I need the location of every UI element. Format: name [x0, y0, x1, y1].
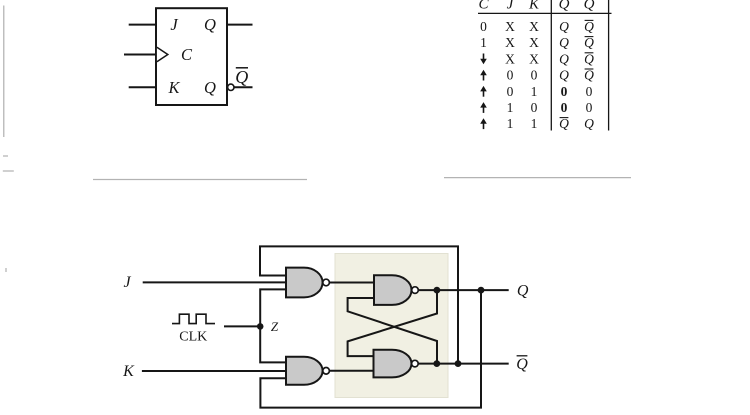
svg-text:0: 0 [561, 100, 568, 115]
svg-text:Q: Q [517, 283, 529, 300]
svg-text:Q: Q [559, 51, 569, 66]
svg-text:0: 0 [531, 68, 538, 83]
svg-text:J: J [170, 15, 178, 34]
svg-text:Q: Q [235, 67, 248, 87]
svg-text:0: 0 [507, 68, 514, 83]
wire cross-coupling Q-bar to G3 input [348, 298, 437, 364]
table header rule [478, 12, 612, 14]
svg-text:Q: Q [204, 15, 216, 34]
svg-text:C: C [181, 45, 193, 64]
svg-text:C: C [478, 0, 489, 12]
table column rule left [550, 0, 552, 131]
svg-text:0: 0 [480, 19, 487, 34]
svg-text:Q: Q [204, 78, 216, 97]
svg-text:J: J [123, 274, 131, 291]
svg-text:1: 1 [531, 116, 538, 131]
svg-text:Q: Q [584, 51, 594, 66]
wire K input [129, 86, 156, 88]
svg-text:1: 1 [507, 100, 514, 115]
separator rule right [444, 177, 631, 179]
wire G1 output to G3 [329, 282, 374, 284]
wire Q-bar output [234, 86, 252, 88]
svg-text:J: J [507, 0, 515, 12]
table column rule right [608, 0, 610, 131]
svg-text:Q: Q [559, 35, 569, 50]
wire Q feedback bottom rail [260, 290, 481, 408]
svg-text:Q: Q [584, 0, 595, 12]
separator rule left [93, 179, 307, 181]
junction dot node Q at feedback tap [478, 287, 485, 294]
svg-text:Q: Q [559, 19, 569, 34]
svg-text:CLK: CLK [179, 330, 207, 345]
svg-text:X: X [505, 19, 515, 34]
svg-text:Q: Q [516, 356, 528, 373]
flip-flop body rectangle [156, 8, 227, 105]
page margin tick marks [3, 6, 14, 273]
svg-text:0: 0 [586, 100, 593, 115]
svg-text:0: 0 [586, 84, 593, 99]
wire G4 output to node Q-bar [418, 363, 437, 365]
svg-text:Q: Q [584, 19, 594, 34]
bubble G1 [323, 279, 330, 286]
wire K input [142, 370, 286, 372]
junction dot node Q-bar at feedback tap [455, 360, 462, 367]
wire Q-bar feedback top rail [260, 246, 458, 363]
svg-text:0: 0 [531, 100, 538, 115]
shaded latch region [335, 254, 448, 398]
node Z junction dot [257, 323, 264, 330]
svg-text:K: K [122, 363, 135, 380]
svg-text:X: X [529, 51, 539, 66]
nand gate G4 (latch bottom) [374, 350, 412, 378]
svg-text:1: 1 [480, 35, 487, 50]
clock edge triangle [157, 47, 168, 61]
svg-text:Q: Q [584, 35, 594, 50]
wire cross-coupling Q to G4 input [348, 290, 437, 356]
wire Q-bar output line [437, 363, 509, 365]
row 6: up-arrow 1 0 0 0 [480, 100, 592, 115]
svg-text:1: 1 [507, 116, 514, 131]
wire Q output [227, 24, 253, 26]
svg-text:K: K [528, 0, 540, 12]
junction dot node Q at gate output [434, 287, 441, 294]
row 7: up-arrow 1 1 Qbar Q [480, 116, 594, 131]
svg-text:0: 0 [561, 84, 568, 99]
svg-text:Q: Q [559, 68, 569, 83]
bubble on Q-bar output [228, 84, 234, 90]
svg-text:K: K [167, 78, 180, 97]
CLK pulse waveform [172, 314, 215, 323]
row 3: down-arrow X X Q Qbar [480, 51, 594, 66]
svg-text:0: 0 [507, 84, 514, 99]
svg-text:X: X [529, 35, 539, 50]
row 1: 0 X X Q Qbar [480, 19, 594, 34]
junction dot node Q-bar at gate output [433, 360, 440, 367]
svg-text:Q: Q [584, 116, 594, 131]
svg-text:Z: Z [271, 319, 279, 334]
svg-text:Q: Q [559, 116, 569, 131]
row 2: 1 X X Q Qbar [480, 35, 594, 50]
svg-text:X: X [529, 19, 539, 34]
bubble G2 [323, 368, 330, 375]
svg-text:1: 1 [531, 84, 538, 99]
wire J input [129, 24, 156, 26]
svg-text:Q: Q [584, 68, 594, 83]
wire C clock input [124, 54, 156, 56]
wire G2 output to G4 [329, 370, 373, 372]
wire J input [143, 281, 286, 283]
row 5: up-arrow 0 1 0 0 [480, 84, 592, 99]
wire clock vertical to both input gates [260, 289, 286, 362]
row 4: up-arrow 0 0 Q Qbar [480, 68, 594, 83]
svg-text:X: X [505, 35, 515, 50]
nand gate G3 (latch top) [374, 275, 412, 305]
wire Q output line [437, 289, 509, 291]
wire G3 output to node Q [418, 289, 437, 291]
svg-text:Q: Q [559, 0, 570, 12]
nand gate G2 (K input gate) [286, 357, 323, 385]
nand gate G1 (J input gate) [286, 268, 323, 298]
wire CLK to node Z [224, 325, 260, 327]
svg-text:X: X [505, 51, 515, 66]
bubble G3 [412, 287, 419, 294]
bubble G4 [412, 360, 419, 367]
